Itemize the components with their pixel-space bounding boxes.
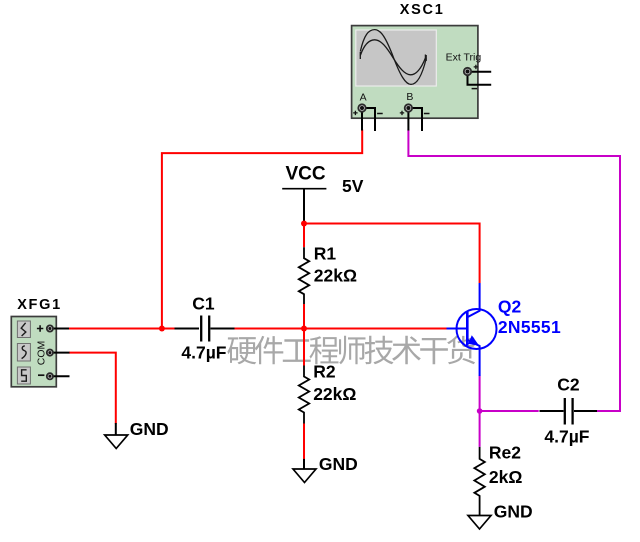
- svg-text:GND: GND: [494, 502, 533, 522]
- svg-text:GND: GND: [130, 419, 169, 439]
- svg-text:4.7µF: 4.7µF: [544, 426, 589, 446]
- svg-text:XFG1: XFG1: [17, 297, 62, 313]
- svg-text:R2: R2: [313, 362, 336, 382]
- svg-text:C1: C1: [192, 294, 215, 314]
- svg-text:COM: COM: [35, 341, 47, 366]
- svg-text:22kΩ: 22kΩ: [314, 266, 357, 286]
- svg-text:Q2: Q2: [498, 296, 522, 316]
- svg-text:2kΩ: 2kΩ: [489, 467, 523, 487]
- svg-text:C2: C2: [557, 374, 580, 394]
- svg-text:VCC: VCC: [286, 164, 326, 185]
- svg-text:5V: 5V: [342, 176, 364, 196]
- svg-text:2N5551: 2N5551: [498, 317, 561, 337]
- svg-text:A: A: [360, 92, 367, 104]
- svg-text:Re2: Re2: [489, 443, 521, 463]
- svg-text:Ext Trig: Ext Trig: [446, 51, 482, 63]
- svg-text:GND: GND: [319, 454, 358, 474]
- svg-text:B: B: [406, 91, 413, 103]
- svg-text:XSC1: XSC1: [400, 2, 445, 18]
- svg-text:22kΩ: 22kΩ: [313, 384, 356, 404]
- svg-text:4.7µF: 4.7µF: [181, 343, 226, 363]
- svg-text:R1: R1: [314, 244, 337, 264]
